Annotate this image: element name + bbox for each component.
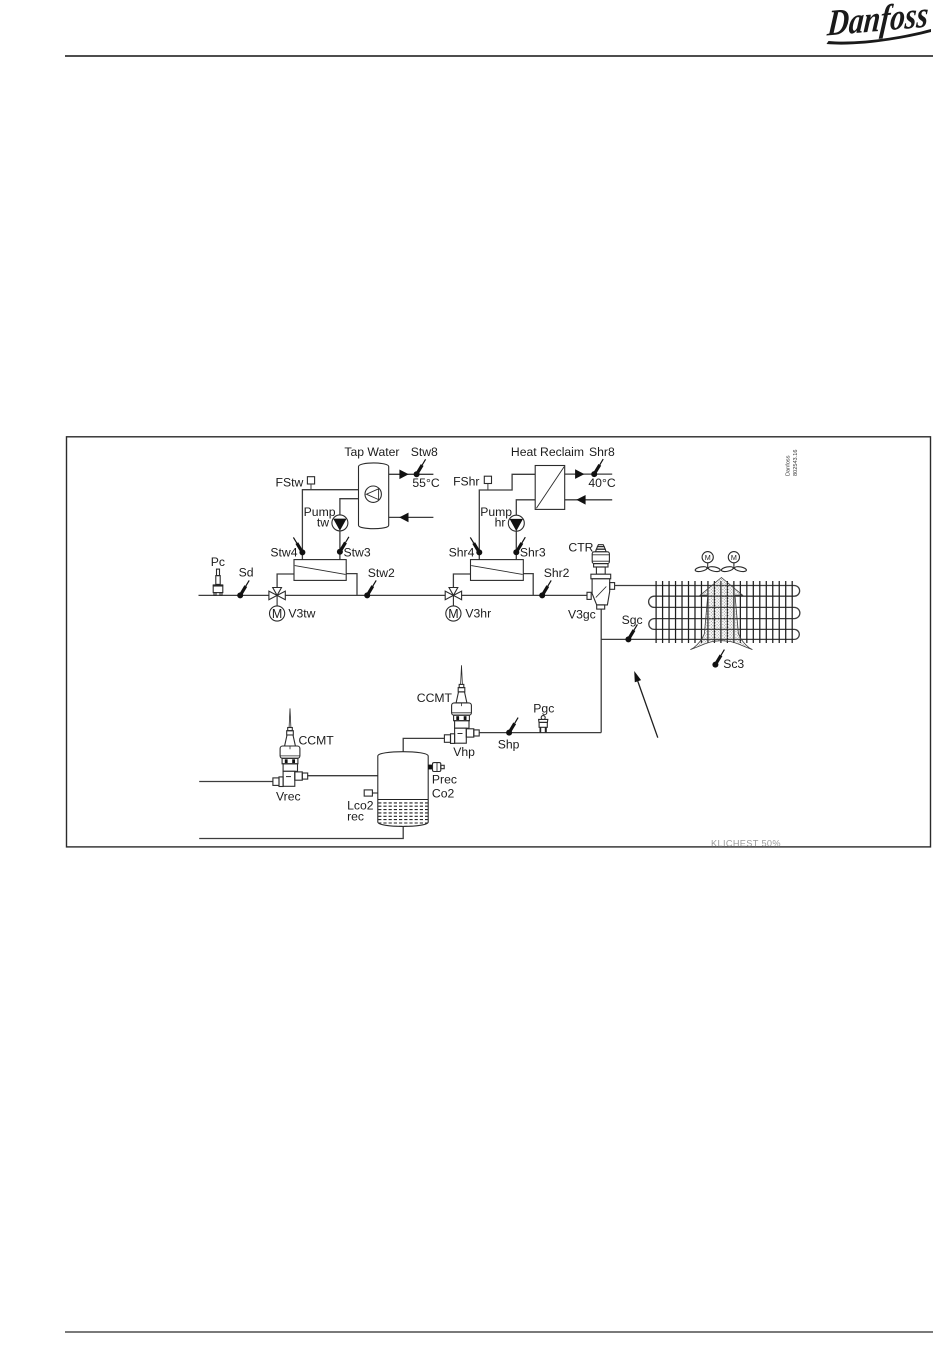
svg-text:Pc: Pc bbox=[211, 555, 225, 569]
flow switch FStw bbox=[307, 477, 314, 490]
diagram frame bbox=[67, 437, 931, 847]
svg-text:V3tw: V3tw bbox=[288, 607, 315, 621]
flow switch FShr bbox=[484, 476, 491, 490]
svg-text:40°C: 40°C bbox=[588, 476, 615, 490]
svg-text:Sd: Sd bbox=[239, 566, 254, 580]
svg-text:Vhp: Vhp bbox=[453, 745, 475, 759]
wire: Vrec outlet left bbox=[199, 781, 273, 783]
svg-text:V3gc: V3gc bbox=[568, 607, 596, 621]
fan M1 bbox=[695, 552, 721, 573]
svg-text:CCMT: CCMT bbox=[417, 691, 453, 705]
receiver tank Co2 bbox=[378, 752, 428, 827]
pressure transmitter Pc bbox=[213, 569, 224, 595]
sensor Stw8 bbox=[414, 459, 426, 477]
sensor Shp bbox=[506, 718, 518, 736]
svg-text:55°C: 55°C bbox=[412, 476, 439, 490]
svg-text:Shr8: Shr8 bbox=[589, 445, 615, 459]
svg-text:M: M bbox=[448, 607, 458, 621]
wire: high pressure line to Vhp bbox=[479, 732, 601, 734]
valve V3tw bbox=[269, 588, 285, 622]
sensor Shr4 bbox=[470, 537, 482, 555]
sensor Shr8 bbox=[591, 459, 603, 477]
sensor Shr3 bbox=[513, 537, 525, 555]
wire: receiver outlet bottom bbox=[199, 827, 403, 839]
pressure transmitter Prec bbox=[428, 763, 444, 772]
wire: tank outlet 55C bbox=[389, 473, 434, 475]
pressure transmitter Pgc bbox=[539, 716, 548, 733]
arrow tank outlet bbox=[399, 470, 408, 480]
wire: Vhp to receiver bbox=[403, 738, 444, 751]
wire: pump tw circuit bbox=[340, 499, 367, 560]
svg-text:Tap Water: Tap Water bbox=[344, 445, 399, 459]
bottom rule bbox=[65, 1331, 933, 1332]
svg-text:rec: rec bbox=[347, 810, 364, 824]
svg-text:Vrec: Vrec bbox=[276, 789, 301, 803]
svg-text:Sgc: Sgc bbox=[622, 613, 643, 627]
heat reclaim exchanger bbox=[535, 466, 565, 510]
svg-text:FStw: FStw bbox=[276, 475, 304, 489]
svg-text:Danfoss: Danfoss bbox=[786, 455, 792, 476]
tap water tank bbox=[359, 463, 389, 529]
svg-text:Pgc: Pgc bbox=[533, 701, 554, 715]
arrow HR return bbox=[576, 495, 585, 505]
wire: V3hr branch to Shr HE bbox=[453, 574, 470, 588]
wire: FShr riser and HR feed bbox=[479, 474, 535, 560]
sensor Stw4 bbox=[293, 537, 305, 555]
sensor Shr2 bbox=[539, 580, 551, 598]
gas cooler fins bbox=[656, 581, 792, 643]
arrow tank return bbox=[399, 513, 408, 523]
svg-text:KLICHEST 50%: KLICHEST 50% bbox=[711, 838, 781, 848]
wire: HR outlet 40C bbox=[565, 473, 613, 475]
fan M2 bbox=[721, 552, 747, 573]
svg-text:Stw4: Stw4 bbox=[270, 545, 297, 559]
svg-text:Heat Reclaim: Heat Reclaim bbox=[511, 445, 584, 459]
wire: receiver to Vrec bbox=[307, 775, 378, 777]
Danfoss logo bbox=[825, 0, 930, 45]
sensor Sgc bbox=[625, 624, 637, 642]
svg-text:Shr3: Shr3 bbox=[520, 545, 546, 559]
heat exchanger Shr bbox=[471, 560, 524, 581]
sensor Stw3 bbox=[337, 537, 349, 555]
wire: V3tw branch to Stw HE bbox=[277, 574, 294, 588]
svg-text:FShr: FShr bbox=[453, 474, 479, 488]
svg-text:Shp: Shp bbox=[498, 737, 520, 751]
svg-text:Co2: Co2 bbox=[432, 786, 455, 800]
sensor Sc3 bbox=[712, 650, 724, 668]
svg-text:V3hr: V3hr bbox=[465, 607, 491, 621]
level sensor Lco2 rec bbox=[364, 790, 378, 796]
pump hr bbox=[508, 515, 524, 531]
svg-text:Stw8: Stw8 bbox=[411, 445, 438, 459]
valve V3hr bbox=[445, 588, 461, 622]
valve Vrec (CCMT) bbox=[273, 708, 308, 786]
pump tw bbox=[332, 515, 348, 531]
gas cooler serpentine coil bbox=[601, 586, 800, 640]
svg-text:CTR: CTR bbox=[568, 540, 593, 554]
wire: tank return bbox=[389, 516, 434, 518]
valve Vhp (CCMT) bbox=[444, 665, 479, 743]
svg-text:Stw3: Stw3 bbox=[344, 545, 371, 559]
drawing number bbox=[786, 450, 800, 476]
svg-text:M: M bbox=[272, 607, 282, 621]
wire: HR return bbox=[565, 499, 613, 501]
svg-text:tw: tw bbox=[317, 515, 329, 529]
svg-text:CCMT: CCMT bbox=[299, 733, 335, 747]
wire: Shr HE return to main line bbox=[523, 574, 533, 596]
motor valve V3gc with CTR actuator bbox=[587, 545, 615, 609]
svg-text:hr: hr bbox=[495, 515, 506, 529]
svg-text:Stw2: Stw2 bbox=[368, 566, 395, 580]
wire: Stw HE return to main line bbox=[346, 574, 357, 596]
wire: pump hr circuit bbox=[516, 500, 535, 560]
air flow symbol bbox=[690, 578, 752, 650]
top rule bbox=[65, 55, 933, 57]
svg-text:M: M bbox=[731, 553, 737, 562]
heat exchanger Stw bbox=[294, 560, 346, 581]
svg-text:Prec: Prec bbox=[432, 773, 457, 787]
wire: main liquid line bbox=[199, 594, 587, 596]
svg-text:Shr4: Shr4 bbox=[449, 545, 475, 559]
wire: FStw riser and Stw HE feed bbox=[302, 490, 365, 560]
tank heating coil bbox=[365, 486, 381, 502]
wire: V3gc bottom drop bbox=[600, 609, 602, 733]
sensor Stw2 bbox=[364, 580, 376, 598]
svg-text:M: M bbox=[705, 553, 711, 562]
svg-text:Sc3: Sc3 bbox=[723, 657, 744, 671]
arrow HR outlet bbox=[575, 469, 584, 479]
annotation arrow bbox=[634, 671, 658, 738]
svg-text:802543.16: 802543.16 bbox=[793, 450, 799, 476]
svg-text:Shr2: Shr2 bbox=[544, 566, 570, 580]
sensor Sd bbox=[237, 580, 249, 598]
